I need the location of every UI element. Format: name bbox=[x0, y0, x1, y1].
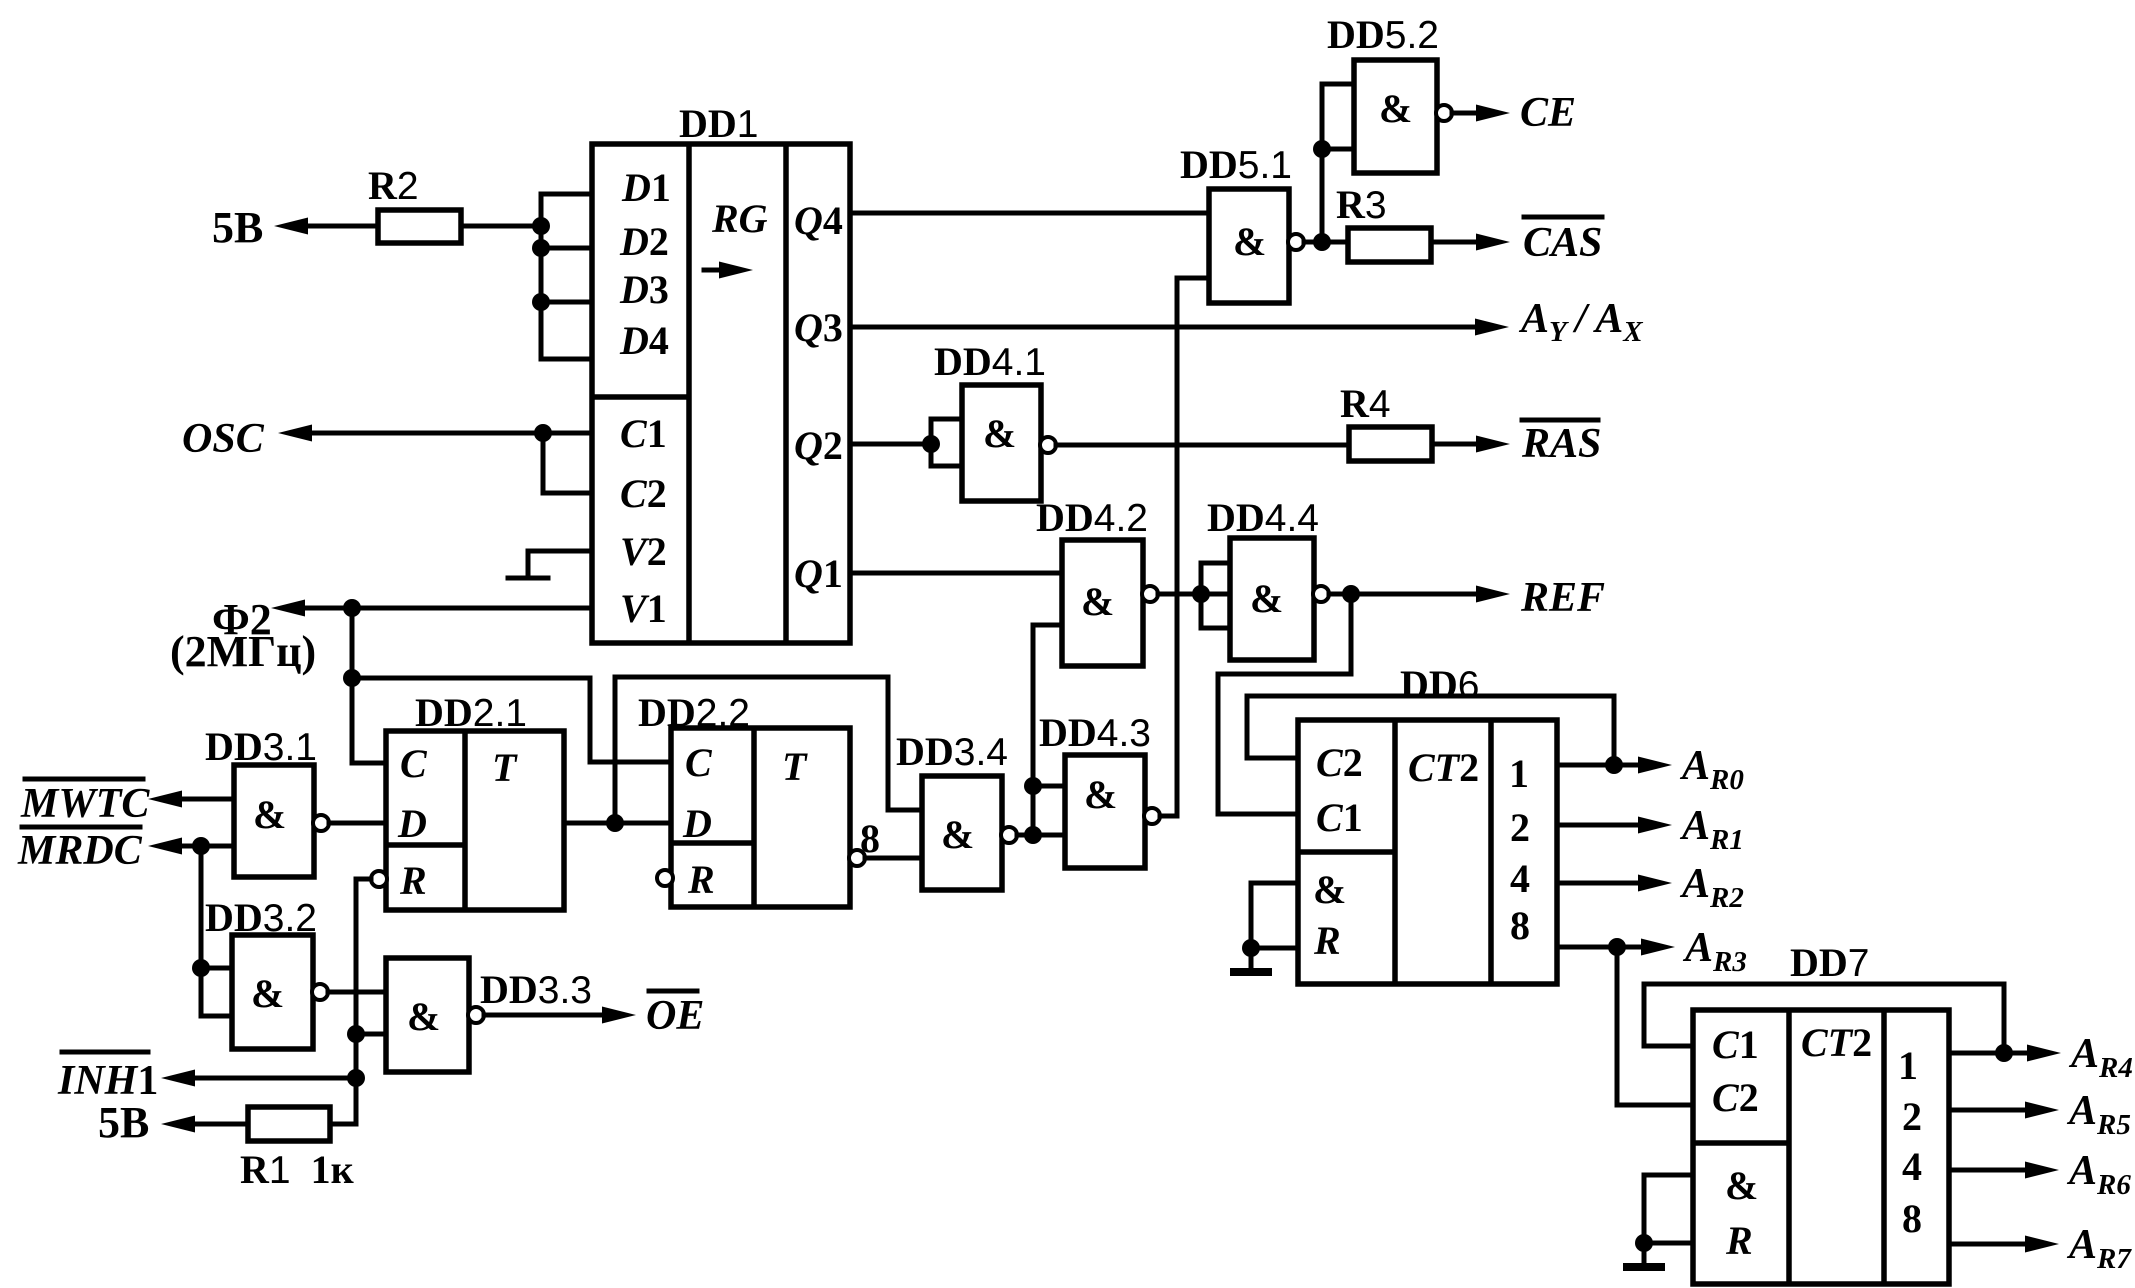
wire AR4 bbox=[1949, 1051, 2047, 1056]
label CAS (overline) bbox=[1524, 215, 1602, 220]
svg-text:&: & bbox=[251, 971, 284, 1016]
wire Q4 to DD5.1 bbox=[850, 211, 1209, 216]
svg-text:DD6: DD6 bbox=[1400, 662, 1479, 707]
svg-text:Q1: Q1 bbox=[794, 551, 843, 596]
wire AR7 bbox=[1949, 1242, 2045, 1247]
svg-text:D3: D3 bbox=[619, 267, 669, 312]
nand gate DD5.2 bbox=[1354, 60, 1437, 173]
svg-text:1: 1 bbox=[1509, 751, 1529, 796]
svg-text:DD5.2: DD5.2 bbox=[1327, 12, 1439, 57]
arrow MWTC bbox=[148, 791, 182, 808]
svg-text:4: 4 bbox=[1902, 1144, 1922, 1189]
wire OSC to C1 bbox=[294, 431, 592, 436]
arrow AY/AX bbox=[1475, 319, 1509, 336]
svg-text:DD3.4: DD3.4 bbox=[896, 729, 1008, 774]
svg-text:DD7: DD7 bbox=[1790, 940, 1869, 985]
svg-text:Q4: Q4 bbox=[794, 198, 843, 243]
svg-text:R3: R3 bbox=[1336, 182, 1387, 227]
junction Q2/DD4.1 bbox=[922, 435, 940, 453]
arrow AR7 bbox=[2025, 1236, 2059, 1253]
arrow AR0 bbox=[1638, 757, 1672, 774]
svg-text:4: 4 bbox=[1510, 856, 1530, 901]
junction Ф2 branch / top run bbox=[343, 669, 361, 687]
wire DD5.2 out to CE bbox=[1452, 111, 1496, 116]
svg-text:R4: R4 bbox=[1340, 381, 1391, 426]
wire 5B to R2 bbox=[290, 224, 378, 229]
arrow AR4 bbox=[2027, 1045, 2061, 1062]
svg-text:C1: C1 bbox=[1712, 1022, 1759, 1067]
DD4.4 input tie bracket bbox=[1201, 563, 1230, 628]
wire DD4.3 out up to DD5.1 bbox=[1160, 814, 1177, 819]
arrow OE bbox=[602, 1007, 636, 1024]
junction DD5.2 bracket bbox=[1313, 140, 1331, 158]
DD5.2 input tie bracket bbox=[1322, 84, 1354, 149]
logic-0 tie on V2 bbox=[508, 551, 592, 578]
wire DD4.4 out to REF bbox=[1329, 592, 1496, 597]
arrow OSC bbox=[278, 425, 312, 442]
wire Q3 to AY/AX bbox=[850, 325, 1495, 330]
svg-text:2: 2 bbox=[1902, 1094, 1922, 1139]
nand gate DD3.3 bbox=[386, 958, 469, 1072]
arrow AR1 bbox=[1638, 817, 1672, 834]
arrow REF bbox=[1476, 586, 1510, 603]
svg-text:&: & bbox=[983, 411, 1016, 456]
svg-text:R: R bbox=[687, 857, 715, 902]
junction DD3.3 lower input bbox=[347, 1025, 365, 1043]
svg-text:D: D bbox=[682, 801, 712, 846]
junction INH1 / R net bbox=[347, 1069, 365, 1087]
svg-text:OSC: OSC bbox=[182, 416, 265, 462]
svg-text:C: C bbox=[685, 740, 713, 785]
nand gate DD4.1 bbox=[962, 385, 1041, 501]
wire DD2.2 out to DD3.4 lower input bbox=[865, 856, 922, 861]
arrow 5B bottom bbox=[161, 1116, 195, 1133]
junction D-net bbox=[606, 814, 624, 832]
wire Ф2 to V1 bbox=[287, 606, 592, 611]
nand gate DD5.1 bbox=[1209, 189, 1289, 303]
svg-text:R1 1к: R1 1к bbox=[240, 1147, 354, 1192]
wire DD2.1 R to INH1 net bbox=[330, 879, 371, 1124]
svg-text:D2: D2 bbox=[619, 219, 669, 264]
wire DD2.1 out to DD2.2 D bbox=[564, 821, 671, 826]
junction DD3.2 upper input bbox=[192, 959, 210, 977]
svg-text:8: 8 bbox=[1902, 1196, 1922, 1241]
wire AR2 bbox=[1557, 881, 1658, 886]
nand gate DD3.2 bbox=[232, 935, 313, 1049]
DD2.2 R input bubble bbox=[657, 870, 673, 886]
svg-text:C2: C2 bbox=[1712, 1075, 1759, 1120]
junction DD4.3 upper input bbox=[1024, 777, 1042, 795]
svg-text:C2: C2 bbox=[620, 471, 667, 516]
junction OSC/C1 bbox=[534, 424, 552, 442]
svg-text:D1: D1 bbox=[621, 165, 671, 210]
wire DD5.2 inputs down to CAS net bbox=[1320, 149, 1325, 242]
wire R3 to CAS bbox=[1431, 240, 1496, 245]
nand gate DD4.3 bbox=[1065, 755, 1145, 868]
label INH1 (overline) bbox=[62, 1050, 148, 1055]
svg-text:DD4.4: DD4.4 bbox=[1207, 495, 1319, 540]
svg-text:RAS: RAS bbox=[1521, 421, 1601, 467]
junction DD7 R tie bbox=[1635, 1234, 1653, 1252]
svg-text:&: & bbox=[407, 994, 440, 1039]
wire DD5.1 out to R3 bbox=[1304, 240, 1348, 245]
arrow Ф2 bbox=[271, 600, 305, 617]
wire AR5 bbox=[1949, 1108, 2045, 1113]
junction bus/D3 bbox=[532, 293, 550, 311]
arrow CAS bbox=[1476, 234, 1510, 251]
wire AR0 bbox=[1557, 763, 1658, 768]
resistor R1 bbox=[248, 1107, 330, 1141]
svg-text:C2: C2 bbox=[1316, 740, 1363, 785]
wire AR6 bbox=[1949, 1168, 2045, 1173]
wire C1 to C2 branch bbox=[543, 433, 592, 493]
svg-text:8: 8 bbox=[860, 816, 880, 861]
wire R4 to RAS bbox=[1432, 442, 1496, 447]
svg-text:CE: CE bbox=[1520, 90, 1576, 136]
DD3.4 output bubble bbox=[1001, 827, 1017, 843]
T flip-flop DD2.1 bbox=[386, 731, 564, 910]
svg-text:D: D bbox=[397, 801, 427, 846]
resistor R4 bbox=[1349, 427, 1432, 461]
svg-text:RG: RG bbox=[711, 196, 768, 241]
svg-text:MWTC: MWTC bbox=[20, 781, 150, 827]
wire DD4.2 out to DD4.4 bbox=[1158, 592, 1230, 597]
svg-text:T: T bbox=[492, 745, 518, 790]
DD4.2 output bubble bbox=[1142, 586, 1158, 602]
junction AR3/DD7 C2 bbox=[1608, 938, 1626, 956]
DD3.3 output bubble bbox=[468, 1007, 484, 1023]
svg-text:DD4.3: DD4.3 bbox=[1039, 710, 1151, 755]
svg-text:V2: V2 bbox=[620, 529, 667, 574]
DD4.1 input tie bracket bbox=[931, 419, 962, 466]
svg-text:(2МГц): (2МГц) bbox=[170, 627, 316, 676]
DD6 R input tie bracket bbox=[1251, 883, 1298, 970]
junction MRDC branch bbox=[192, 837, 210, 855]
svg-text:V1: V1 bbox=[620, 586, 667, 631]
svg-text:D4: D4 bbox=[619, 318, 669, 363]
ground DD7 bbox=[1623, 1263, 1665, 1271]
svg-text:C1: C1 bbox=[620, 411, 667, 456]
wire AR3 down to DD7 C2 bbox=[1617, 947, 1693, 1105]
arrow AR3 bbox=[1641, 939, 1675, 956]
wire R2 to D-bus bbox=[461, 224, 541, 229]
junction DD3.4 out / DD4.2-DD4.3 net bbox=[1024, 826, 1042, 844]
svg-text:&: & bbox=[253, 792, 286, 837]
wire DD3.3 lower input bbox=[356, 1032, 386, 1037]
svg-text:Q3: Q3 bbox=[794, 305, 843, 350]
wire DD3.1 out to DD2.1 D bbox=[329, 821, 386, 826]
svg-text:OE: OE bbox=[646, 993, 704, 1039]
arrow RAS bbox=[1476, 436, 1510, 453]
wire D input bus bbox=[541, 194, 592, 359]
junction AR0/feedback bbox=[1605, 756, 1623, 774]
DD5.2 output bubble bbox=[1436, 105, 1452, 121]
DD3.2 output bubble bbox=[312, 984, 328, 1000]
svg-text:&: & bbox=[1233, 219, 1266, 264]
wire Q1 to DD4.2 bbox=[850, 571, 1062, 576]
nand gate DD4.4 bbox=[1230, 538, 1314, 660]
svg-text:R: R bbox=[1725, 1218, 1753, 1263]
wire REF to DD6 C1 bbox=[1218, 594, 1351, 814]
label RAS (overline) bbox=[1522, 418, 1598, 423]
svg-text:DD5.1: DD5.1 bbox=[1180, 142, 1292, 187]
junction bus/D2 bbox=[532, 239, 550, 257]
svg-text:DD1: DD1 bbox=[679, 101, 758, 146]
nand gate DD4.2 bbox=[1062, 540, 1143, 666]
DD2.1 R input bubble bbox=[371, 871, 387, 887]
counter DD6 bbox=[1298, 720, 1557, 984]
svg-text:Q2: Q2 bbox=[794, 423, 843, 468]
wire DD3.3 out to OE bbox=[484, 1013, 622, 1018]
svg-text:5В: 5В bbox=[212, 203, 263, 252]
svg-text:DD4.2: DD4.2 bbox=[1036, 495, 1148, 540]
svg-text:DD2.1: DD2.1 bbox=[415, 690, 527, 735]
resistor R3 bbox=[1348, 228, 1431, 262]
wire MRDC down to DD3.2 inputs bbox=[201, 846, 232, 1016]
arrow AR2 bbox=[1638, 875, 1672, 892]
arrow INH1 bbox=[161, 1070, 195, 1087]
svg-text:DD4.1: DD4.1 bbox=[934, 339, 1046, 384]
nand gate DD3.1 bbox=[234, 765, 314, 877]
label MWTC (overline) bbox=[25, 777, 143, 782]
svg-text:R: R bbox=[1313, 918, 1341, 963]
wire DD3.4 out to DD4.3 lower input bbox=[1017, 833, 1065, 838]
T flip-flop DD2.2 bbox=[671, 728, 850, 907]
DD2.2 output bubble bbox=[849, 850, 865, 866]
wire DD3.2 out to DD3.3 bbox=[328, 990, 386, 995]
svg-text:&: & bbox=[1084, 772, 1117, 817]
wire DD6 feedback 1 to C2 bbox=[1247, 696, 1614, 765]
svg-text:T: T bbox=[782, 744, 808, 789]
DD5.1 output bubble bbox=[1288, 234, 1304, 250]
wire INH1 bbox=[177, 1076, 356, 1081]
wire Q2 to DD4.1 bbox=[850, 442, 931, 447]
svg-text:&: & bbox=[1725, 1163, 1758, 1208]
svg-text:CT2: CT2 bbox=[1408, 745, 1479, 790]
junction CAS/DD5.2 tie bbox=[1313, 233, 1331, 251]
svg-text:DD3.2: DD3.2 bbox=[205, 895, 317, 940]
arrow AR5 bbox=[2025, 1102, 2059, 1119]
label OE (overline) bbox=[649, 989, 697, 994]
nand gate DD3.4 bbox=[922, 776, 1002, 890]
DD7 R input tie bracket bbox=[1644, 1175, 1693, 1265]
svg-text:&: & bbox=[1250, 576, 1283, 621]
svg-text:MRDC: MRDC bbox=[17, 828, 143, 874]
wire Ф2 branch down to DD2.1 C bbox=[352, 608, 386, 763]
svg-text:DD2.2: DD2.2 bbox=[638, 690, 750, 735]
wire AR3 bbox=[1557, 945, 1661, 950]
wire 5B to R1 bbox=[177, 1122, 248, 1127]
svg-text:&: & bbox=[1313, 867, 1346, 912]
RG arrow bbox=[704, 268, 736, 273]
svg-text:DD3.3: DD3.3 bbox=[480, 967, 592, 1012]
svg-text:5В: 5В bbox=[98, 1098, 149, 1147]
register DD1 bbox=[592, 144, 850, 643]
DD4.1 output bubble bbox=[1040, 437, 1056, 453]
junction DD4.4 bracket bbox=[1192, 585, 1210, 603]
svg-text:2: 2 bbox=[1510, 805, 1530, 850]
DD4.2 lower input from DD3.4 out net bbox=[1033, 625, 1062, 835]
DD4.3 output bubble bbox=[1144, 808, 1160, 824]
label MRDC (overline) bbox=[22, 825, 140, 830]
wire DD5.1 lower input from DD4.3 bbox=[1177, 278, 1209, 816]
resistor R2 bbox=[378, 210, 461, 243]
DD3.1 output bubble bbox=[313, 815, 329, 831]
junction bus/R2 bbox=[532, 217, 550, 235]
junction DD6 R tie bbox=[1242, 939, 1260, 957]
arrow CE bbox=[1476, 105, 1510, 122]
wire Ф2 top run to DD2.2 C bbox=[352, 678, 671, 762]
wire MRDC to DD3.1 bbox=[164, 844, 234, 849]
svg-text:C1: C1 bbox=[1316, 795, 1363, 840]
arrow AR6 bbox=[2025, 1162, 2059, 1179]
node Ф2 junction bbox=[343, 599, 361, 617]
arrow 5B bbox=[274, 218, 308, 235]
junction REF branch bbox=[1342, 585, 1360, 603]
counter DD7 bbox=[1693, 1010, 1949, 1284]
wire DD2.1 D-net to DD3.4 upper input bbox=[615, 677, 922, 823]
wire DD4.1 out to R4 bbox=[1056, 443, 1349, 448]
svg-text:CAS: CAS bbox=[1523, 220, 1602, 266]
arrow MRDC bbox=[148, 838, 182, 855]
DD4.4 output bubble bbox=[1313, 586, 1329, 602]
junction AR4/feedback bbox=[1995, 1044, 2013, 1062]
svg-text:&: & bbox=[1379, 86, 1412, 131]
svg-text:REF: REF bbox=[1520, 575, 1605, 621]
wire AR1 bbox=[1557, 823, 1658, 828]
wire DD7 feedback 1 to C1 bbox=[1644, 984, 2004, 1053]
wire DD4.3 upper input bbox=[1033, 784, 1065, 789]
svg-text:1: 1 bbox=[1898, 1043, 1918, 1088]
svg-text:R: R bbox=[399, 858, 427, 903]
svg-text:C: C bbox=[400, 741, 428, 786]
svg-text:R2: R2 bbox=[368, 163, 419, 208]
svg-text:8: 8 bbox=[1510, 903, 1530, 948]
wire MWTC to DD3.1 bbox=[164, 797, 234, 802]
svg-text:&: & bbox=[941, 812, 974, 857]
svg-text:&: & bbox=[1081, 579, 1114, 624]
ground DD6 bbox=[1230, 968, 1272, 976]
svg-text:DD3.1: DD3.1 bbox=[205, 724, 317, 769]
svg-text:CT2: CT2 bbox=[1801, 1020, 1872, 1065]
